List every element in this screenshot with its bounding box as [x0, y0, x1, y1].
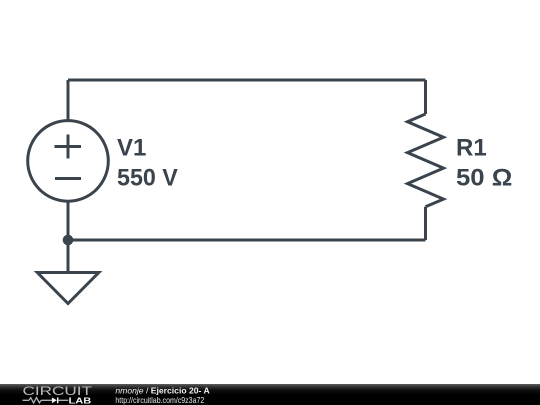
V1 plus sign	[55, 135, 82, 159]
svg-text:550 V: 550 V	[117, 165, 178, 192]
svg-text:http://circuitlab.com/c9z3a72: http://circuitlab.com/c9z3a72	[115, 395, 204, 405]
svg-text:R1: R1	[456, 135, 487, 162]
wire top	[68, 79, 426, 82]
logo wire after zigzag	[41, 399, 52, 401]
wire right bottom (R1 to bottom wire)	[424, 207, 427, 240]
logo resistor zigzag	[29, 398, 41, 403]
logo diode bar	[57, 397, 59, 403]
logo wire to LAB	[58, 399, 68, 401]
logo lead wire	[23, 399, 30, 401]
logo diode triangle	[52, 397, 57, 403]
node junction dot	[63, 235, 74, 246]
wire ground stub	[67, 240, 70, 273]
ground symbol	[37, 273, 99, 304]
svg-text:50 Ω: 50 Ω	[456, 165, 512, 192]
V1 minus sign	[55, 177, 81, 180]
resistor R1 zigzag	[408, 114, 444, 207]
wire left bottom (V1 negative terminal to node)	[67, 201, 70, 240]
wire right top (to R1)	[424, 80, 427, 114]
svg-text:V1: V1	[117, 135, 146, 162]
voltage source V1 circle	[28, 121, 109, 202]
wire bottom	[68, 239, 426, 242]
wire left top (to V1 positive terminal)	[67, 80, 70, 121]
svg-text:LAB: LAB	[69, 395, 92, 405]
